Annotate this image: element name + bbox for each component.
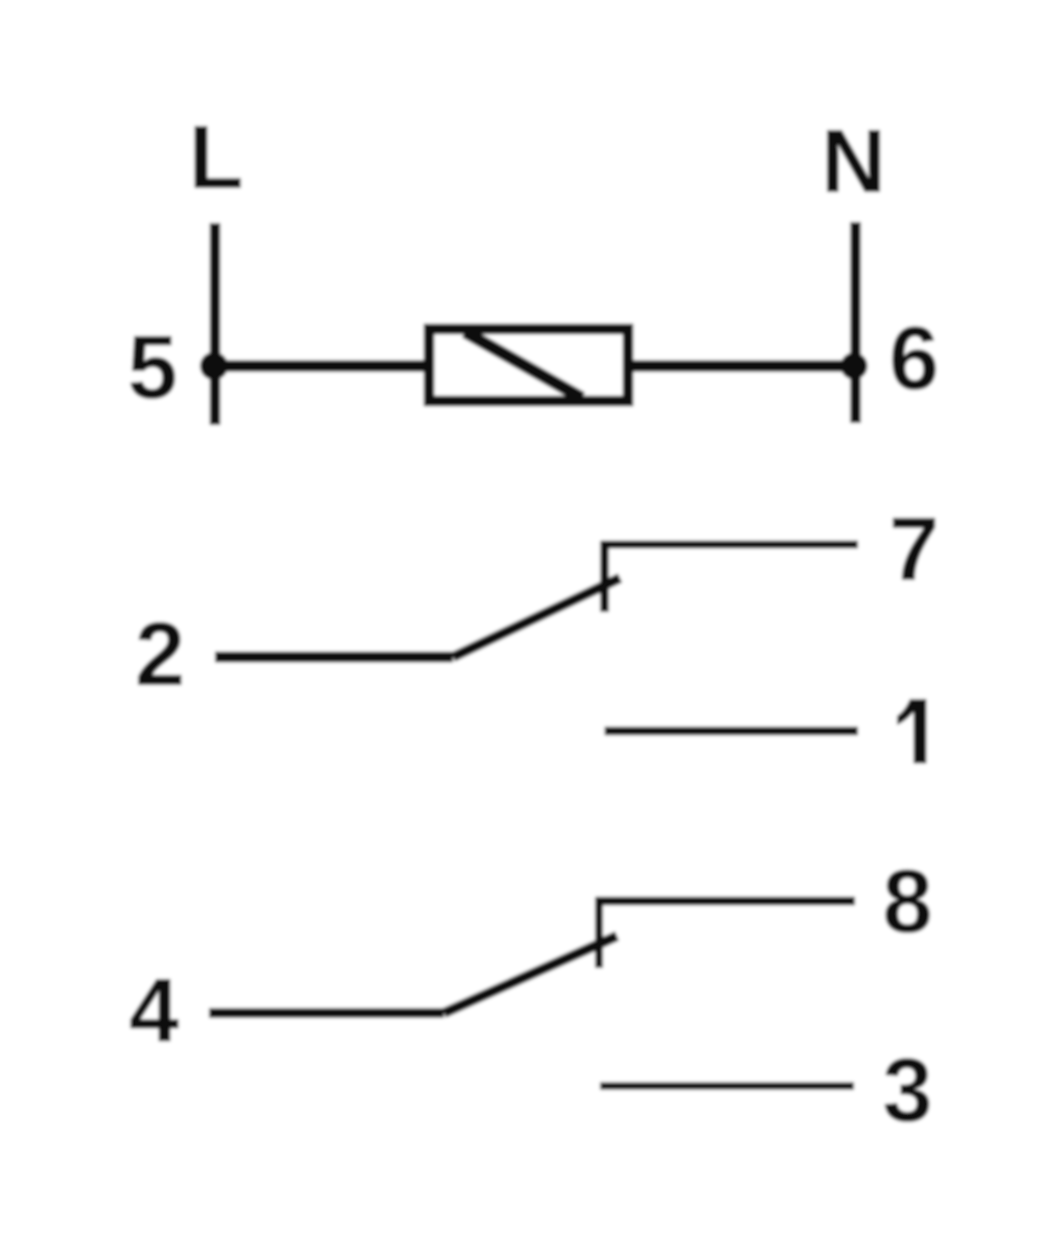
- svg-text:N: N: [821, 112, 886, 212]
- svg-text:6: 6: [889, 309, 939, 409]
- svg-text:8: 8: [882, 852, 932, 952]
- svg-text:L: L: [189, 108, 244, 208]
- svg-text:7: 7: [889, 500, 939, 600]
- svg-text:5: 5: [127, 318, 177, 418]
- svg-text:4: 4: [129, 961, 179, 1061]
- svg-text:3: 3: [882, 1041, 932, 1141]
- svg-text:2: 2: [135, 605, 185, 705]
